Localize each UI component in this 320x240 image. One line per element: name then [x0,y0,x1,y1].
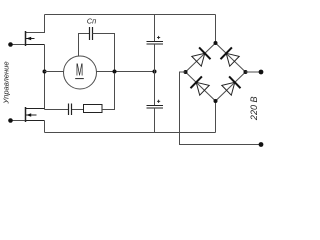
transistor VT1 (top MOSFET) [26,31,45,46]
capacitor C2 (snubber) [69,104,72,116]
diode VD1 (left-top edge) [192,47,211,66]
wire: AC right from bridge right vertex [246,71,262,73]
wire: top rail left riser to VT1 drain [26,15,45,33]
wire: node A to motor left terminal [45,71,64,73]
capacitor C1 electrolytic upper [147,42,164,45]
wire: cap rail bottom section [154,108,156,133]
wire: AC left drop from bridge left vertex [180,72,262,145]
svg-text:Сп: Сп [87,17,97,26]
motor M1 circle [64,56,97,89]
gate wire VT2 [11,120,26,122]
svg-text:M: M [76,59,83,79]
wire: motor right rail [97,71,155,73]
node A junction dot [43,70,47,74]
wire: bottom rail [45,132,216,134]
bridge vertex dot bottom [214,99,218,103]
capacitor C3 electrolytic lower [147,106,164,109]
motor M letter [75,59,84,79]
plus sign of C3 [157,100,160,103]
wire: VT1 source down to node A and on to RC corner [44,45,46,110]
wire: RC snubber line left part [45,109,69,111]
wire: top rail [45,14,216,16]
resistor R1 [84,105,103,113]
bridge vertex dot top [214,41,218,45]
bridge vertex dot left [184,70,188,74]
diode VD4 (bottom-right edge) [222,76,241,95]
terminal dot: control input 2 [8,118,13,123]
wire: bridge bottom riser [215,101,217,133]
diode VD3 (bottom-left edge) [191,76,210,95]
wire: C2 to R1 [72,109,84,111]
svg-text:220 В: 220 В [249,97,259,122]
wire: Cn right side to junction B [93,34,115,72]
capacitor Cn [90,27,93,40]
wire: top rail right riser to bridge top [215,15,217,44]
wire: cap rail between C1 and junction C [154,44,156,106]
terminal dot: AC lower [259,142,264,147]
wire: cap rail top section [154,15,156,42]
wire: R1 right riser up to junction B [102,73,115,110]
plus sign of C1 [157,36,160,39]
terminal dot: AC upper [259,70,264,75]
junction dot C [153,70,157,74]
wire: motor top riser to Cn [79,34,90,57]
junction dot B [113,70,117,74]
bridge diamond wires [186,43,246,101]
svg-text:Управление: Управление [1,61,10,104]
transistor VT2 (bottom MOSFET) [26,107,45,122]
wire: VT2 source riser to bottom rail [44,121,46,133]
diode VD2 (right-top edge) [221,47,240,66]
bridge vertex dot right [244,70,248,74]
gate wire VT1 [11,44,26,46]
terminal dot: control input 1 [8,42,13,47]
